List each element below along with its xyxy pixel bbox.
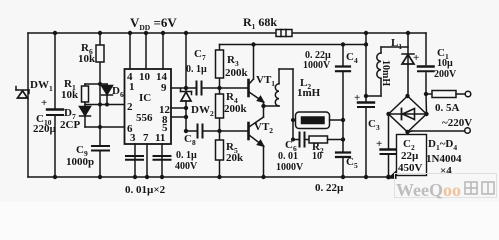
diode D5 [407, 33, 409, 96]
wire AC 220V terminal from bridge bottom vertex [408, 131, 413, 132]
svg-text:0. 5A: 0. 5A [435, 102, 460, 114]
wire left outer column [27, 33, 29, 177]
svg-text:0. 1µ: 0. 1µ [186, 64, 207, 75]
wire C2 column [388, 114, 390, 148]
capacitor C2 22u 450V [381, 148, 397, 150]
svg-text:200k: 200k [225, 67, 249, 79]
svg-text:0. 1µ: 0. 1µ [176, 150, 197, 161]
node wire top of R7/D6 [85, 83, 107, 85]
svg-text:10µ: 10µ [437, 58, 453, 69]
svg-text:+: + [41, 97, 47, 109]
svg-text:IC: IC [139, 92, 151, 104]
resistor R7 10k [84, 84, 86, 86]
fuse 0.5A [426, 93, 432, 95]
wire VT1e/VT2c node to L2 [264, 105, 280, 107]
wire VT1 base [220, 87, 248, 89]
wire C10 column [54, 33, 56, 108]
inductor L2 1mH [275, 84, 279, 106]
svg-text:10mH: 10mH [380, 60, 391, 86]
wire resistor column R3/R4/R5 [219, 45, 221, 51]
svg-text:1N4004: 1N4004 [426, 153, 462, 165]
transistor Q2 VT2 [247, 123, 250, 139]
wire IC pin12 stub [171, 107, 186, 109]
wire top rail right segment [292, 32, 426, 34]
wire IC pin7 down [146, 144, 148, 177]
transducer B outer shell [293, 119, 296, 121]
wire IC pin4 [129, 33, 131, 69]
svg-text:9: 9 [161, 82, 167, 94]
wire R6 column [99, 33, 101, 45]
capacitor 0.01u (left of pair) [126, 155, 143, 157]
capacitor C6 0.01 1000V [293, 139, 299, 141]
svg-text:WeeQoo: WeeQoo [396, 180, 461, 200]
resistor R4 200k [216, 94, 224, 118]
wire IC pin10 [145, 33, 147, 69]
wire C4/C5 column [342, 45, 344, 66]
svg-text:0. 22µ: 0. 22µ [315, 182, 344, 194]
svg-text:1000V: 1000V [276, 162, 304, 173]
wire C1 column [425, 33, 427, 65]
bridge rectifier D1-D4 [389, 96, 427, 132]
svg-text:VDD =6V: VDD =6V [130, 15, 177, 32]
node junction dots [53, 31, 429, 180]
svg-text:3: 3 [130, 132, 136, 144]
svg-text:1mH: 1mH [297, 87, 321, 99]
svg-text:200k: 200k [224, 103, 248, 115]
svg-text:5: 5 [162, 122, 168, 134]
wire IC pin11 down [161, 144, 163, 177]
resistor R6 10k [96, 45, 104, 62]
transducer B inner plate [302, 117, 325, 124]
svg-text:1: 1 [129, 81, 135, 93]
svg-text:+: + [413, 52, 419, 64]
op-amp U1 IC 556 box [125, 69, 172, 144]
svg-text:10: 10 [312, 151, 322, 162]
svg-text:×4: ×4 [440, 165, 452, 177]
capacitor C9 1000p [92, 145, 109, 147]
wire IC pin9 to C7 [171, 87, 196, 89]
wire DW2 column [185, 33, 187, 90]
capacitor C1 10u 200V [418, 65, 434, 68]
zener DW1 [18, 91, 28, 98]
resistor R2 10 [309, 136, 328, 143]
wire IC pin14 [162, 33, 164, 69]
wire C8 coupling to VT2 base [186, 130, 197, 132]
svg-text:20k: 20k [226, 152, 244, 164]
capacitor C5 0.22u [336, 151, 350, 153]
inductor L1 10mH [381, 46, 408, 48]
transistor Q1 VT1 [247, 80, 250, 96]
svg-text:2CP: 2CP [60, 119, 80, 131]
diode D7 2CP [84, 105, 86, 107]
svg-text:556: 556 [136, 112, 153, 124]
wire L1 bottom to C3 node [366, 95, 381, 97]
node wire to IC pin6 [85, 126, 125, 128]
svg-text:22µ: 22µ [401, 150, 419, 162]
wire bottom ground rail [28, 176, 389, 178]
resistor R5 20k [216, 140, 224, 160]
wire top VDD rail left segment [28, 32, 276, 34]
svg-text:0. 01: 0. 01 [278, 151, 298, 162]
resistor R1 68k [276, 30, 292, 37]
wire IC pin3 down [134, 144, 136, 177]
node wire to IC pin2 [85, 104, 125, 106]
capacitor C10 220u [47, 108, 63, 110]
svg-text:~220V: ~220V [442, 117, 472, 129]
wire L2 top hook [279, 68, 293, 70]
wire IC pin8 stub [171, 116, 186, 118]
svg-text:+: + [354, 92, 360, 104]
svg-text:1000p: 1000p [66, 156, 94, 168]
diode D6 [106, 84, 108, 86]
wire C1/fuse junction down to bridge AC vertex [425, 94, 428, 114]
capacitor C3 electrolytic [358, 101, 374, 103]
watermark WeeQoo [395, 174, 497, 201]
svg-text:2: 2 [127, 101, 133, 113]
callout box for C2 value [388, 135, 427, 180]
svg-text:1000V: 1000V [303, 60, 331, 71]
svg-text:10k: 10k [78, 53, 96, 65]
svg-text:10k: 10k [61, 89, 79, 101]
svg-text:200V: 200V [434, 69, 457, 80]
capacitor 0.01u (right of pair) [154, 155, 171, 157]
svg-text:D1~D4: D1~D4 [428, 138, 457, 152]
svg-text:400V: 400V [175, 161, 198, 172]
svg-text:0. 01µ×2: 0. 01µ×2 [125, 184, 166, 196]
capacitor C4 0.22u 1000V [336, 65, 350, 67]
svg-text:R1 68k: R1 68k [243, 15, 277, 31]
svg-text:450V: 450V [398, 162, 423, 174]
capacitor C8 0.1u 400V [197, 125, 199, 138]
capacitor C7 0.1u [196, 82, 198, 95]
svg-text:10: 10 [139, 71, 151, 83]
zener DW2 [181, 92, 191, 101]
svg-text:+: + [376, 138, 382, 150]
svg-text:220µ: 220µ [33, 123, 57, 135]
wire C3 column [365, 33, 367, 101]
wire HV rail (second rail) [220, 44, 367, 46]
resistor R3 200k [216, 50, 224, 78]
svg-text:7: 7 [143, 132, 149, 144]
